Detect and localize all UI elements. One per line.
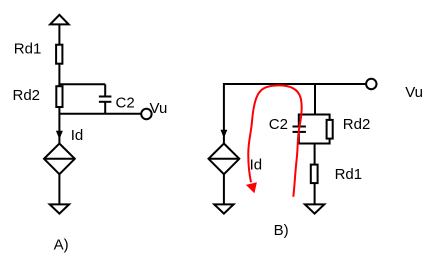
wire Rd1 to Rd2 (A) <box>58 64 60 86</box>
wire top bar to capacitor (B) <box>298 114 300 127</box>
wire capacitor to bottom bar (B) <box>298 132 300 145</box>
svg-text:Id: Id <box>250 157 263 174</box>
red current loop curve (B) <box>248 85 301 196</box>
svg-text:Id: Id <box>71 127 84 144</box>
wire top node down to current source (B) <box>223 83 225 144</box>
current direction arrowhead Id (A) <box>56 131 63 139</box>
wire top node down to RC block (B) <box>314 84 316 115</box>
wire current source to ground (B) <box>223 174 225 204</box>
svg-text:C2: C2 <box>269 116 288 133</box>
wire top node horizontal (B) <box>224 83 366 85</box>
resistor Rd2 (B) <box>327 120 333 139</box>
svg-text:Vu: Vu <box>405 84 423 101</box>
svg-text:B): B) <box>274 222 289 239</box>
svg-text:Rd2: Rd2 <box>343 116 371 133</box>
ground symbol right (B) <box>305 204 324 213</box>
wire capacitor bottom to output node (A) <box>104 102 106 114</box>
current source diamond (B) <box>209 144 240 175</box>
terminal circle Vu (A) <box>141 109 151 119</box>
wire VCC to Rd1 (A) <box>58 24 60 44</box>
current source diamond (A) <box>44 144 75 175</box>
svg-text:Vu: Vu <box>150 100 168 117</box>
capacitor C2 (A) <box>99 97 112 102</box>
ground symbol left (B) <box>214 204 233 213</box>
svg-text:A): A) <box>54 237 69 254</box>
red current arrowhead Id loop (B) <box>246 182 257 193</box>
capacitor C2 (B) <box>293 127 306 132</box>
ground symbol (A) <box>50 204 69 213</box>
wire current source to ground (A) <box>58 174 60 204</box>
svg-text:Rd2: Rd2 <box>13 87 41 104</box>
svg-text:Rd1: Rd1 <box>14 41 42 58</box>
svg-text:C2: C2 <box>116 94 135 111</box>
wire RC block top bar (B) <box>299 114 330 116</box>
wire top bar to resistor Rd2 (B) <box>329 114 331 120</box>
wire resistor Rd2 to bottom bar (B) <box>329 139 331 145</box>
wire Rd1 to ground (B) <box>314 183 316 204</box>
wire branch to capacitor top plate (A) <box>104 84 106 96</box>
svg-text:Rd1: Rd1 <box>335 166 363 183</box>
wire RC block to Rd1 (B) <box>314 144 316 165</box>
power supply symbol VCC circuit A <box>50 15 69 25</box>
resistor Rd2 (A) <box>56 86 62 107</box>
wire Rd2 bottom down to current source (A) <box>58 107 60 144</box>
wire RC block bottom bar (B) <box>299 143 330 145</box>
wire node to C2 branch (A) <box>58 83 105 85</box>
resistor Rd1 (A) <box>56 45 62 64</box>
current direction arrowhead (B) <box>221 130 228 138</box>
wire output node horizontal to terminal (A) <box>59 113 141 115</box>
resistor Rd1 (B) <box>311 165 318 184</box>
terminal circle Vu (B) <box>366 79 376 89</box>
